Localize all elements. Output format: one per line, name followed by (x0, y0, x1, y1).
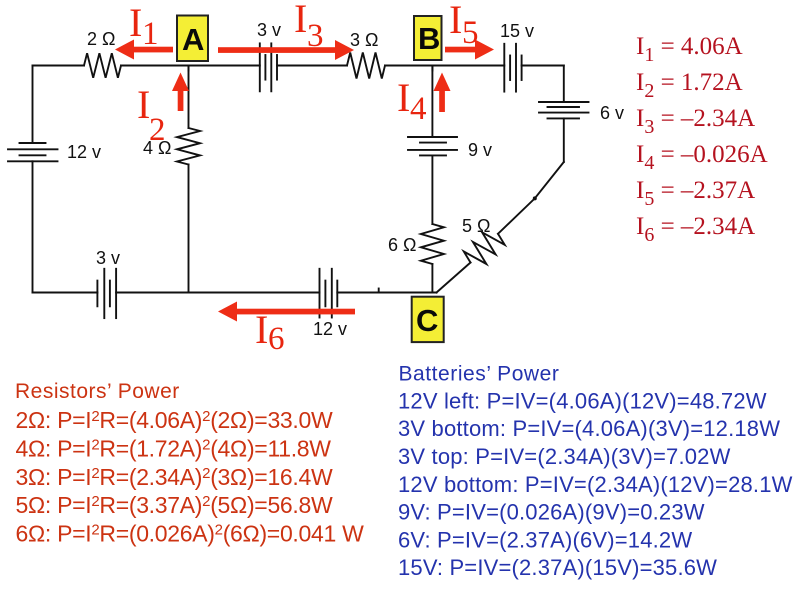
annotation resistor power line 5 (16, 492, 334, 518)
battery 12v left (8, 143, 58, 161)
wire 6v battery down to diagonal (563, 118, 565, 162)
current arrow I3 (218, 40, 354, 60)
svg-text:9V: P=IV=(0.026A)(9V)=0.23W: 9V: P=IV=(0.026A)(9V)=0.23W (398, 500, 705, 525)
current value I1 (636, 33, 743, 66)
wire 3Ω to 15v battery (under node B) (385, 65, 504, 67)
junction tick node B (431, 66, 433, 71)
svg-text:I5 = –2.37A: I5 = –2.37A (636, 177, 755, 210)
svg-text:1: 1 (142, 16, 159, 52)
value label 6v (600, 103, 624, 123)
annotation battery power line 12V left (398, 388, 767, 413)
value label 3Ω (350, 30, 378, 50)
current arrow I2 (172, 73, 189, 112)
node B (414, 16, 442, 60)
value label 9v (468, 140, 492, 160)
wire top-right corner down to 6v battery (563, 66, 565, 103)
current value I5 (636, 177, 755, 210)
annotation battery power line 15V (398, 555, 717, 580)
value label 2Ω (87, 29, 115, 49)
current value I2 (636, 69, 743, 102)
svg-text:6: 6 (268, 321, 285, 357)
svg-text:9 v: 9 v (468, 140, 492, 160)
value label 4Ω (143, 138, 171, 158)
battery 15v (504, 44, 521, 92)
svg-text:I: I (397, 75, 410, 120)
node A (177, 16, 208, 62)
svg-text:3 Ω: 3 Ω (350, 30, 378, 50)
svg-text:3Ω: P=I2R=(2.34A)2(3Ω)=16.4W: 3Ω: P=I2R=(2.34A)2(3Ω)=16.4W (16, 464, 334, 490)
svg-text:3 v: 3 v (257, 20, 281, 40)
value label 12v left (67, 142, 101, 162)
annotation resistors power title (15, 380, 180, 403)
wire node B down to 9v battery (431, 66, 433, 138)
wire 2Ω to 3v battery (under node A) (121, 65, 260, 67)
annotation battery power line 12V bottom (398, 472, 793, 497)
svg-text:5: 5 (462, 15, 479, 51)
current arrow label I1 (129, 0, 159, 52)
svg-text:15 v: 15 v (500, 21, 534, 41)
battery 3v bottom (97, 269, 116, 318)
svg-text:12V left: P=IV=(4.06A)(12V)=48: 12V left: P=IV=(4.06A)(12V)=48.72W (398, 388, 767, 413)
current arrow label I2 (137, 82, 166, 148)
current arrow label I3 (294, 0, 324, 54)
svg-text:C: C (416, 303, 438, 338)
svg-text:6 Ω: 6 Ω (388, 235, 416, 255)
svg-text:I: I (255, 307, 268, 352)
wire bottom left segment (33, 292, 98, 294)
svg-text:I: I (449, 0, 462, 42)
svg-text:I: I (294, 0, 307, 41)
annotation resistor power line 3 (16, 464, 334, 490)
svg-text:B: B (418, 21, 440, 56)
svg-text:I4 = –0.026A: I4 = –0.026A (636, 141, 768, 174)
resistor R1 2Ω (84, 53, 121, 78)
svg-text:12V bottom: P=IV=(2.34A)(12V)=: 12V bottom: P=IV=(2.34A)(12V)=28.1W (398, 472, 793, 497)
junction tick bottom wire (378, 289, 380, 293)
value label 12v bottom (313, 319, 347, 339)
wire top-left horizontal (33, 65, 85, 67)
svg-text:12 v: 12 v (67, 142, 101, 162)
svg-text:Batteries’ Power: Batteries’ Power (399, 362, 560, 385)
value label 3v bottom (96, 248, 120, 268)
wire 4Ω down to bottom wire (188, 165, 190, 293)
wire left vertical lower (32, 161, 34, 292)
wire 9v battery down to 6Ω (431, 155, 433, 224)
wire bottom middle segment (116, 292, 319, 294)
annotation battery power line 3V bottom (398, 416, 780, 441)
svg-text:12 v: 12 v (313, 319, 347, 339)
wire 6Ω down to node C corner (431, 264, 433, 293)
current value I4 (636, 141, 768, 174)
value label 3v top (257, 20, 281, 40)
svg-text:3V top: P=IV=(2.34A)(3V)=7.02W: 3V top: P=IV=(2.34A)(3V)=7.02W (398, 444, 731, 469)
annotation battery power line 6V (398, 527, 692, 552)
current arrow label I6 (255, 307, 285, 357)
current value I6 (636, 213, 755, 246)
svg-text:A: A (182, 22, 204, 57)
wire node A down to 4Ω (188, 66, 190, 129)
wire 15v battery to top-right corner (522, 65, 564, 67)
node C (412, 297, 444, 342)
battery 6v (539, 102, 589, 118)
value label 5Ω (462, 216, 490, 236)
current arrow label I4 (397, 75, 427, 127)
resistor R2 4Ω (177, 128, 200, 165)
svg-text:5Ω: P=I2R=(3.37A)2(5Ω)=56.8W: 5Ω: P=I2R=(3.37A)2(5Ω)=56.8W (16, 492, 334, 518)
resistor R4 6Ω (421, 224, 444, 264)
svg-text:2 Ω: 2 Ω (87, 29, 115, 49)
svg-text:I3 = –2.34A: I3 = –2.34A (636, 105, 755, 138)
svg-text:5 Ω: 5 Ω (462, 216, 490, 236)
resistor R5 5Ω diagonal (464, 232, 505, 264)
current arrow I6 (218, 302, 355, 322)
current arrow I1 (115, 40, 173, 60)
junction dot diagonal kink (533, 196, 537, 200)
svg-text:6 v: 6 v (600, 103, 624, 123)
svg-text:15V: P=IV=(2.37A)(15V)=35.6W: 15V: P=IV=(2.37A)(15V)=35.6W (398, 555, 717, 580)
current arrow label I5 (449, 0, 479, 51)
svg-text:Resistors’ Power: Resistors’ Power (15, 380, 180, 403)
resistor R3 3Ω (347, 53, 385, 79)
current arrow I4 (434, 73, 451, 113)
wire bottom right segment to node C (337, 292, 436, 294)
svg-text:I1 = 4.06A: I1 = 4.06A (636, 33, 743, 66)
annotation battery power line 9V (398, 500, 705, 525)
current arrow I5 (445, 40, 494, 60)
svg-text:6Ω: P=I2R=(0.026A)2(6Ω)=0.041: 6Ω: P=I2R=(0.026A)2(6Ω)=0.041 W (16, 521, 365, 547)
svg-text:2Ω: P=I2R=(4.06A)2(2Ω)=33.0W: 2Ω: P=I2R=(4.06A)2(2Ω)=33.0W (16, 407, 334, 433)
svg-text:I6 = –2.34A: I6 = –2.34A (636, 213, 755, 246)
junction tick node A (188, 66, 190, 71)
value label 15v (500, 21, 534, 41)
svg-text:I: I (129, 0, 142, 45)
svg-text:I2 = 1.72A: I2 = 1.72A (636, 69, 743, 102)
svg-text:6V: P=IV=(2.37A)(6V)=14.2W: 6V: P=IV=(2.37A)(6V)=14.2W (398, 527, 692, 552)
svg-text:4Ω: P=I2R=(1.72A)2(4Ω)=11.8W: 4Ω: P=I2R=(1.72A)2(4Ω)=11.8W (16, 435, 332, 461)
battery 9v (408, 137, 457, 155)
svg-text:2: 2 (149, 112, 166, 148)
svg-text:3: 3 (307, 18, 324, 54)
svg-text:4: 4 (410, 91, 427, 127)
battery 3v top (260, 43, 277, 91)
annotation resistor power line 6 (16, 521, 365, 547)
wire 5Ω to node C corner (437, 263, 471, 293)
wire diagonal to 5Ω (498, 162, 564, 234)
annotation battery power line 3V top (398, 444, 731, 469)
wire 3v battery to 3Ω (277, 65, 347, 67)
annotation resistor power line 2 (16, 407, 334, 433)
annotation resistor power line 4 (16, 435, 332, 461)
battery 12v bottom (320, 269, 338, 318)
annotation batteries power title (399, 362, 560, 385)
wire left vertical upper (32, 66, 34, 144)
current value I3 (636, 105, 755, 138)
svg-text:3V bottom: P=IV=(4.06A)(3V)=12: 3V bottom: P=IV=(4.06A)(3V)=12.18W (398, 416, 780, 441)
value label 6Ω (388, 235, 416, 255)
svg-text:3 v: 3 v (96, 248, 120, 268)
